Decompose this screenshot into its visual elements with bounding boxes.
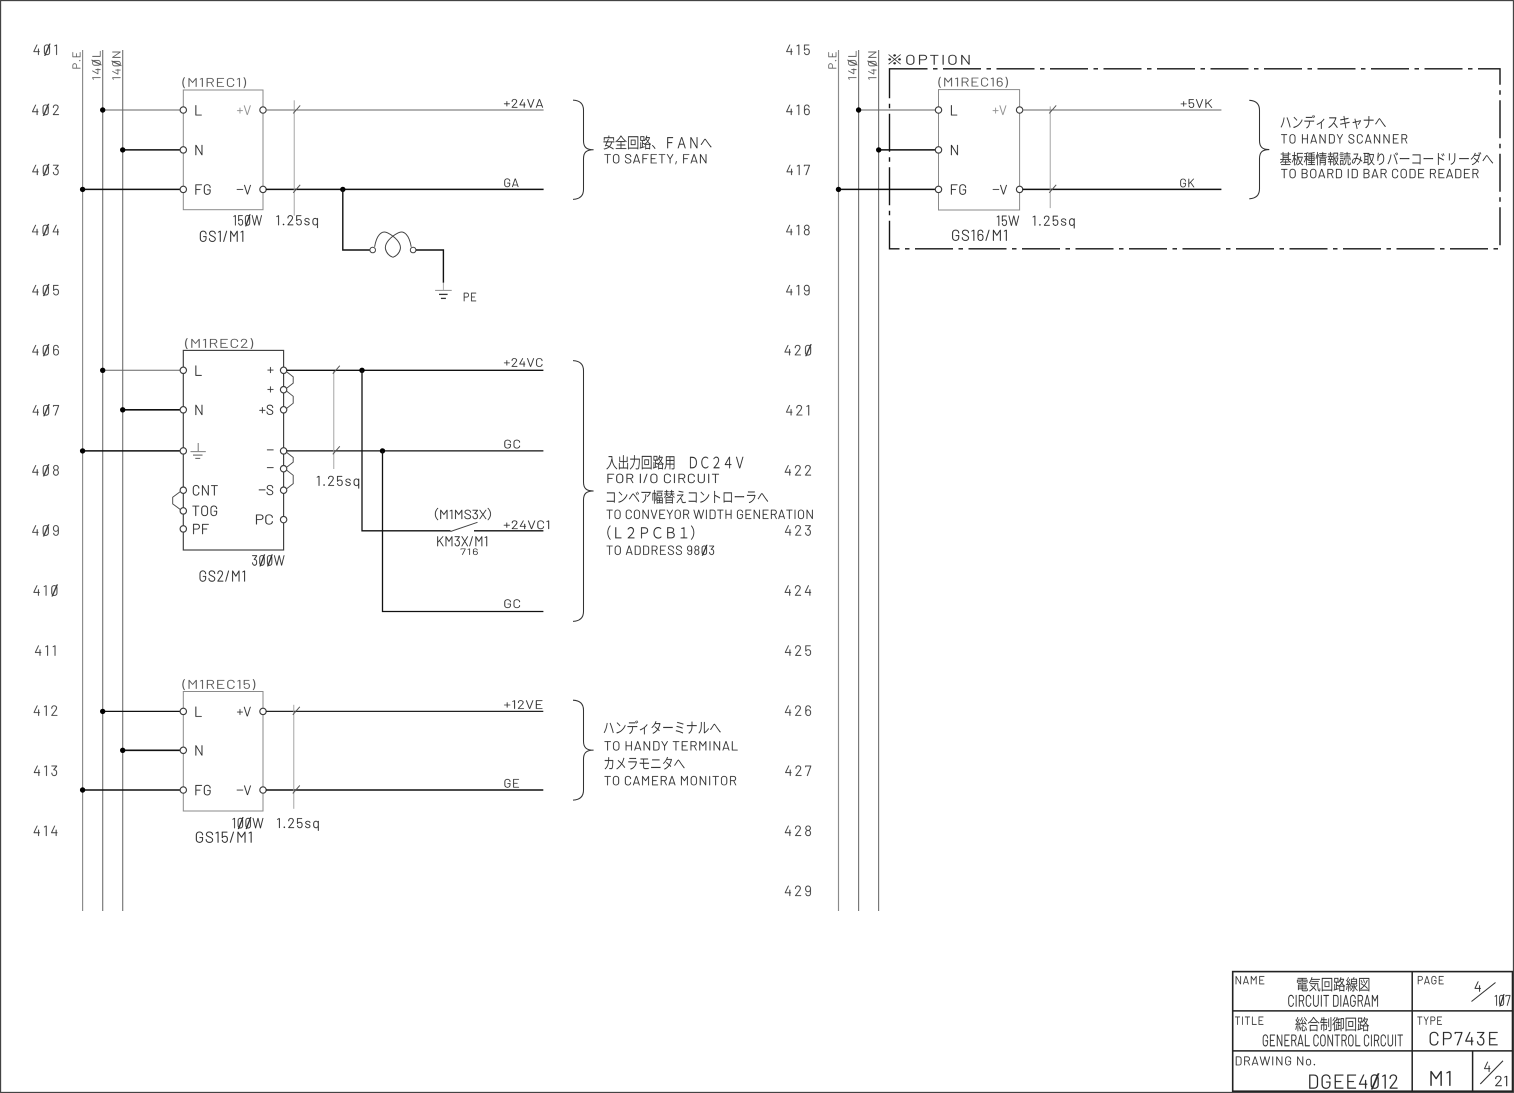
title block name Japanese 電気回路線図	[1297, 977, 1369, 991]
GS2 terminal - (1)	[280, 448, 286, 454]
wire P.E to GS2 earth input	[83, 450, 181, 452]
GS1 cable size measure line	[293, 100, 295, 215]
annotation: TO CONVEYOR WIDTH GENERATION	[607, 510, 813, 519]
wire 140L to GS16 L input	[859, 109, 936, 111]
annotation: to camera monitor (Japanese)	[605, 757, 685, 769]
power supply GS1/M1 body	[183, 90, 263, 210]
GS16 terminal N	[935, 147, 941, 153]
sheet fraction numerator 4	[1484, 1062, 1490, 1072]
right margin line numbers 415-429	[785, 45, 812, 896]
annotation: (L2PCB1)	[607, 526, 694, 540]
power supply GS15/M1 (M1REC15) designator label	[182, 679, 255, 690]
GS16 rating 15W	[997, 216, 1019, 226]
annotation: for I/O circuit DC24V (Japanese)	[606, 455, 743, 469]
GS15 cable slash on +12VE	[293, 707, 300, 715]
annotation: TO BOARD ID BAR CODE READER	[1281, 169, 1478, 178]
GS2 cable size label 1.25sq	[317, 476, 359, 489]
wire GS15 -V output GE	[266, 789, 544, 791]
GS15 terminal +V	[260, 708, 266, 714]
GS2 jumper + to +	[286, 372, 293, 389]
GS15 terminal -V	[260, 787, 266, 793]
node junction GC / branch to lower GC	[380, 448, 385, 453]
right 140L bus wire	[858, 50, 860, 911]
contact name KM3X/M1	[437, 536, 487, 546]
GS1 rating 150W	[233, 214, 261, 226]
node junction 140N/N (GS15)	[120, 748, 125, 753]
GS16 terminal +V	[1016, 107, 1022, 113]
wire GS16 +V output +5VK	[1022, 109, 1221, 111]
wire noise filter to PE ground	[416, 250, 444, 283]
annotation: TO SAFETY, FAN	[604, 154, 706, 164]
left 140L bus wire	[102, 50, 104, 911]
title block bottom-right divider	[1472, 1051, 1474, 1091]
contact sheet reference 716	[461, 549, 478, 555]
left P.E bus label	[73, 52, 81, 68]
GS16 terminal -V	[1016, 186, 1022, 192]
GS16 cable size label 1.25sq	[1033, 216, 1075, 229]
annotation: to conveyor width controller (Japanese)	[607, 490, 768, 504]
GS2 terminal L	[180, 367, 186, 373]
GS16 name GS16/M1	[952, 230, 1007, 241]
node junction +24VC / branch to KM3X	[359, 368, 364, 373]
option area dash-dot boundary box	[890, 69, 1501, 249]
title block vertical divider	[1411, 972, 1413, 1092]
title block outer frame	[1233, 972, 1513, 1092]
annotation: TO CAMERA MONITOR	[605, 776, 737, 785]
title block CIRCUIT DIAGRAM	[1288, 995, 1377, 1007]
GS16 cable slash on GK	[1049, 185, 1056, 193]
wire GS2 + output +24VC	[286, 369, 543, 371]
GS2 terminal earth with symbol	[180, 448, 186, 454]
wire P.E to GS1 FG input	[83, 188, 181, 190]
title block TITLE label	[1235, 1017, 1263, 1025]
wire GS15 +V output +12VE	[266, 710, 544, 712]
right 140N bus label	[868, 52, 878, 80]
node junction 140L/L (GS16)	[856, 107, 861, 112]
GS15 cable size measure line	[293, 705, 295, 809]
net label +24VA	[504, 99, 543, 108]
GS1 cable size label 1.25sq	[276, 215, 317, 228]
GS2 terminal +S	[280, 407, 286, 413]
power supply GS1/M1 (M1REC1) designator label	[182, 77, 246, 88]
left 140L bus label	[92, 51, 102, 80]
ground label PE	[464, 293, 476, 301]
GS2 rating 300W	[252, 554, 284, 566]
GS2 cable slash on GC	[333, 446, 340, 454]
wire 140L to GS15 L input	[103, 710, 181, 712]
GS15 cable size label 1.25sq	[277, 818, 318, 831]
power supply GS16/M1 body	[939, 90, 1020, 210]
right P.E bus wire	[838, 50, 840, 911]
title block drawing number DGEE4012	[1309, 1073, 1397, 1089]
GS2 terminal PF	[180, 526, 186, 532]
annotation: FOR I/O CIRCUIT	[608, 474, 719, 483]
annotation: to safety, fan (Japanese)	[604, 136, 712, 150]
GS15 name GS15/M1	[196, 832, 252, 843]
page fraction denominator 107	[1495, 994, 1511, 1006]
title block TYPE label	[1417, 1017, 1441, 1025]
brace for +5VK/GK outputs	[1249, 100, 1269, 199]
annotation: board id bar code reader (Japanese)	[1280, 152, 1493, 165]
title block GENERAL CONTROL CIRCUIT	[1263, 1035, 1403, 1047]
power supply GS15/M1 body	[183, 692, 263, 812]
sheet fraction slash	[1480, 1061, 1503, 1084]
GS2 jumper - to -S	[286, 470, 293, 489]
left margin line numbers 401-414	[32, 44, 59, 836]
GS2 cable size measure line	[333, 371, 335, 469]
right 140L bus label	[848, 51, 858, 80]
noise filter (surge absorber) symbol	[370, 232, 416, 257]
GS2 terminal PC	[280, 516, 286, 522]
title block DRAWING No. label	[1236, 1056, 1315, 1065]
GS2 name GS2/M1	[200, 571, 245, 582]
wire P.E to GS16 FG input	[839, 188, 936, 190]
node junction P.E/earth (GS2)	[80, 448, 85, 453]
GS15 terminal N	[180, 747, 186, 753]
brace for I/O circuit outputs	[573, 361, 594, 622]
GS2 terminal CNT	[180, 487, 186, 493]
GS16 terminal FG	[935, 186, 941, 192]
power supply GS16/M1 (M1REC16) designator label	[938, 77, 1007, 88]
annotation: TO HANDY SCANNER	[1281, 134, 1407, 143]
left 140N bus wire	[122, 50, 124, 911]
GS16 cable slash on +5VK	[1049, 105, 1056, 113]
wire P.E to GS15 FG input	[83, 789, 181, 791]
contact KM3X/M1 (M1MS3X) blade	[451, 522, 478, 531]
GS2 terminal TOG	[180, 508, 186, 514]
GS2 jumper - to -	[286, 452, 293, 467]
net label GE	[505, 779, 519, 788]
node junction P.E/FG (GS16)	[836, 187, 841, 192]
contact designator (M1MS3X)	[435, 508, 491, 520]
node junction P.E/FG (GS15)	[80, 787, 85, 792]
annotation: TO HANDY TERMINAL	[605, 741, 738, 750]
title block row line 1	[1233, 1010, 1513, 1012]
annotation: to handy terminal (Japanese)	[604, 721, 721, 735]
left P.E bus wire	[82, 50, 84, 911]
node junction 140N/N (GS2)	[120, 407, 125, 412]
GS1 terminal N	[180, 147, 186, 153]
wire 140N to GS1 N input	[123, 149, 181, 151]
ground PE symbol	[435, 283, 452, 299]
title block title Japanese 総合制御回路	[1295, 1017, 1369, 1031]
wire 140N to GS2 N input	[123, 409, 181, 411]
title block row line 2	[1233, 1050, 1513, 1052]
power supply GS2/M1 body	[183, 350, 283, 550]
wire 140N to GS15 N input	[123, 749, 181, 751]
net label +24VC	[504, 358, 542, 367]
page fraction numerator 4	[1475, 981, 1481, 991]
wire GS2 - output GC	[286, 450, 543, 452]
GS1 terminal FG	[180, 186, 186, 192]
GS2 terminal -S	[280, 487, 286, 493]
net label GC (upper)	[504, 440, 520, 449]
title block sheet M1	[1430, 1071, 1450, 1086]
title block NAME label	[1236, 976, 1265, 984]
title block type CP743E	[1430, 1032, 1498, 1046]
GS16 terminal L	[935, 107, 941, 113]
GS1 terminal +V	[260, 107, 266, 113]
GS2 jumper CNT-TOG	[173, 491, 181, 509]
left 140N bus label	[112, 52, 122, 80]
net label +12VE	[504, 700, 542, 709]
GS2 jumper + to +S	[286, 391, 293, 409]
annotation: TO ADDRESS 9803	[607, 545, 714, 556]
net label +24VC1	[504, 521, 549, 530]
wire 140N to GS16 N input	[879, 149, 936, 151]
wire 140L to GS2 L input	[103, 369, 181, 371]
page fraction slash	[1472, 983, 1496, 1002]
GS2 terminal + (1)	[280, 367, 286, 373]
right 140N bus wire	[878, 50, 880, 911]
net label GC (lower)	[504, 599, 520, 608]
GS15 terminal FG	[180, 787, 186, 793]
GS1 terminal L	[180, 107, 186, 113]
brace for +24VA/GA outputs	[573, 100, 594, 199]
node junction 140L/L (GS1)	[100, 107, 105, 112]
GS1 name GS1/M1	[200, 231, 243, 242]
GS2 terminal + (2)	[280, 387, 286, 393]
net label +5VK	[1181, 99, 1212, 108]
node junction 140L/L (GS2)	[100, 368, 105, 373]
title block PAGE label	[1418, 976, 1444, 984]
GS2 terminal - (2)	[280, 466, 286, 472]
power supply GS2/M1 (M1REC2) designator label	[185, 338, 253, 349]
brace for +12VE/GE outputs	[573, 700, 594, 800]
GS15 terminal L	[180, 708, 186, 714]
node junction GA / PE filter branch	[340, 187, 345, 192]
annotation: to handy scanner (Japanese)	[1281, 115, 1386, 129]
option area label *OPTION	[888, 54, 969, 64]
node junction 140N/N (GS16)	[876, 147, 881, 152]
GS1 terminal -V	[260, 186, 266, 192]
wire GS1 -V output GA	[266, 188, 544, 190]
GS2 cable slash on +24VC	[333, 366, 340, 374]
GS15 cable slash on GE	[293, 785, 300, 793]
sheet fraction denominator 21	[1495, 1076, 1507, 1086]
net label GK	[1180, 179, 1194, 188]
right P.E bus label	[828, 52, 836, 68]
GS1 cable slash on +24VA	[293, 105, 300, 113]
wire GC branch down to lower GC	[383, 451, 544, 612]
wire 140L to GS1 L input	[103, 109, 181, 111]
GS15 rating 100W	[233, 817, 264, 829]
wire GS1 +V output +24VA	[266, 109, 544, 111]
GS1 cable slash on GA	[293, 185, 300, 193]
wire GS16 -V output GK	[1022, 188, 1221, 190]
GS2 terminal N	[180, 407, 186, 413]
node junction 140N/N (GS1)	[120, 147, 125, 152]
wire GA branch down to noise filter	[343, 189, 370, 250]
wire KM3X contact to +24VC1	[474, 530, 543, 532]
net label GA	[504, 179, 518, 188]
node junction 140L/L (GS15)	[100, 709, 105, 714]
wire +24VC branch down to KM3X contact	[362, 370, 451, 531]
GS16 cable size measure line	[1049, 106, 1051, 208]
node junction P.E/FG (GS1)	[80, 187, 85, 192]
